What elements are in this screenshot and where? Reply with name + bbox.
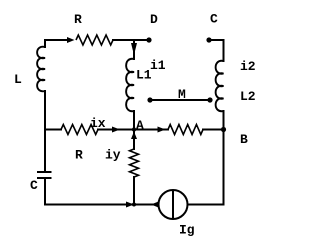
- wire left rail below capacitor to bottom: [44, 178, 46, 205]
- resistor R top zigzag: [76, 35, 113, 45]
- node D dot: [146, 37, 151, 42]
- wire top from left rail to resistor R: [45, 39, 67, 41]
- svg-text:A: A: [136, 118, 144, 133]
- M coupling dot right: [207, 97, 212, 102]
- arrow from current source pointing left: [151, 202, 159, 208]
- wire from vertical resistor to bottom wire: [133, 177, 135, 205]
- wire from node A down to vertical resistor: [133, 130, 135, 150]
- svg-text:C: C: [30, 178, 38, 193]
- arrow iy pointing up into node A: [131, 132, 137, 140]
- wire left rail below L to capacitor C: [44, 91, 46, 172]
- wire from node A to right resistor: [134, 129, 168, 131]
- wire left rail top corner to inductor L: [44, 40, 46, 47]
- svg-text:i2: i2: [240, 59, 256, 74]
- inductor L1 coil: [126, 59, 134, 111]
- resistor R middle-left zigzag (ix branch): [61, 125, 98, 135]
- wire middle from left rail to resistor R (ix branch): [45, 129, 61, 131]
- svg-text:M: M: [178, 87, 186, 102]
- svg-text:L: L: [14, 72, 22, 87]
- wire L1 branch from top wire down to coil: [133, 40, 135, 59]
- svg-text:L2: L2: [240, 89, 256, 104]
- current source Ig circle: [159, 190, 188, 219]
- node B dot: [221, 127, 226, 132]
- wire from L1 coil down to node A: [133, 111, 135, 130]
- svg-text:R: R: [74, 12, 82, 27]
- node A dot: [132, 127, 136, 131]
- svg-text:iy: iy: [105, 148, 121, 163]
- wire from right resistor to node B: [203, 129, 224, 131]
- svg-text:L1: L1: [136, 68, 152, 83]
- wire bottom from left rail to junction: [45, 204, 134, 206]
- wire from current source to right rail: [188, 204, 224, 206]
- wire right rail from node B up to L2 coil: [223, 111, 225, 130]
- resistor vertical zigzag (iy branch): [130, 149, 139, 177]
- wire right rail from bottom to node B: [223, 130, 225, 205]
- wire top from resistor R to node D: [113, 39, 149, 41]
- capacitor C plates: [37, 172, 52, 178]
- svg-text:R: R: [75, 148, 83, 163]
- svg-text:ix: ix: [90, 116, 106, 131]
- wire M coupling line: [150, 99, 210, 101]
- svg-text:i1: i1: [150, 58, 166, 73]
- svg-text:Ig: Ig: [179, 223, 195, 238]
- current source Ig internal bar: [172, 190, 174, 219]
- bottom junction dot: [132, 203, 136, 207]
- resistor middle-right zigzag (A to B): [168, 125, 203, 135]
- node C dot: [206, 37, 211, 42]
- arrow i1 pointing down into L1: [131, 43, 137, 55]
- svg-text:C: C: [210, 12, 218, 27]
- inductor L2 coil: [216, 61, 224, 111]
- wire from node C to top of L2: [209, 40, 224, 61]
- arrow on bottom wire pointing right into junction: [126, 202, 134, 208]
- wire middle from resistor R to node A: [98, 129, 134, 131]
- arrow on top wire (current into R): [67, 37, 75, 43]
- wire bottom from junction to current source: [134, 204, 159, 206]
- arrow from node A pointing right to resistor: [158, 127, 166, 133]
- inductor L coil: [37, 47, 45, 92]
- svg-text:B: B: [240, 132, 248, 147]
- svg-text:D: D: [150, 12, 158, 27]
- arrow ix pointing right into node A: [112, 127, 120, 133]
- M coupling dot left: [147, 97, 152, 102]
